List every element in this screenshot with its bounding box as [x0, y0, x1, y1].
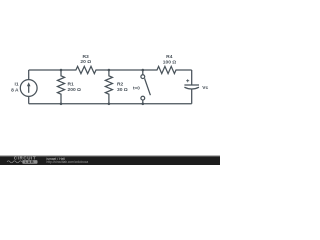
svg-text:8 A: 8 A [11, 88, 19, 94]
svg-text:I1: I1 [15, 82, 19, 88]
svg-text:200 Ω: 200 Ω [68, 87, 82, 93]
svg-text:20 Ω: 20 Ω [80, 59, 91, 65]
svg-text:R1: R1 [68, 82, 75, 88]
svg-text:LAB: LAB [25, 160, 35, 164]
svg-text:R3: R3 [82, 54, 89, 60]
svg-text:100 Ω: 100 Ω [163, 59, 177, 65]
svg-text:30 Ω: 30 Ω [117, 87, 128, 93]
svg-text:R2: R2 [117, 82, 124, 88]
svg-text:R4: R4 [166, 54, 173, 60]
svg-text:t=0: t=0 [133, 86, 140, 91]
svg-text:Vc: Vc [202, 85, 208, 91]
svg-text:http://circuitlab.com/cxkdxoca: http://circuitlab.com/cxkdxoca [47, 160, 89, 164]
